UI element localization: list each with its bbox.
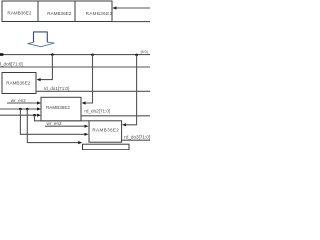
RAM block U4 (mid left) — [2, 73, 36, 94]
bus line L2 — [0, 66, 150, 68]
node on pin3 wire — [33, 114, 36, 117]
svg-text:RAMB36E2: RAMB36E2 — [7, 11, 31, 16]
net rd_do3 wire — [122, 139, 150, 141]
svg-text:wr_en2: wr_en2 — [11, 98, 27, 103]
branch B wire into U7 pin — [27, 109, 82, 144]
RAM block U7 (bottom, clipped) — [83, 144, 130, 150]
svg-text:rd_do2[71:0]: rd_do2[71:0] — [84, 109, 110, 114]
svg-text:RAMB36E2: RAMB36E2 — [47, 11, 71, 16]
svg-text:RAMB36E2: RAMB36E2 — [46, 105, 70, 110]
node on L1 for V2 — [91, 54, 94, 57]
collapsed-hierarchy expand marker (blue) — [34, 32, 48, 42]
svg-text:RAMB36E2: RAMB36E2 — [6, 80, 30, 85]
RAM block U5 (center) — [41, 97, 81, 121]
pin stub on L1 — [0, 53, 3, 56]
RAM block U1 (top row left) — [2, 1, 38, 22]
wire wr_en3 into U6 pin1 — [45, 125, 89, 128]
svg-text:rd_do3[71:0]: rd_do3[71:0] — [124, 135, 150, 140]
wire into U5 pin2 — [0, 107, 41, 110]
RAM block U3 (top row right) — [75, 1, 112, 22]
svg-text:rd_do8[71:0]: rd_do8[71:0] — [0, 62, 23, 67]
wire from pin3 node down to U6 top rail — [35, 115, 90, 121]
wire into U3 right edge — [112, 6, 150, 9]
svg-text:rd_do1[71:0]: rd_do1[71:0] — [44, 86, 70, 91]
RAM block U2 (top row middle) — [38, 1, 75, 22]
svg-text:wr_en3: wr_en3 — [47, 121, 63, 126]
node on pin2 wire for branch A — [19, 108, 22, 111]
RAM block U6 (bottom right) — [89, 121, 122, 142]
branch A wire into U6 pin2 — [20, 109, 88, 136]
svg-text:RAMB36E2: RAMB36E2 — [86, 11, 113, 16]
wire wr_en2 into U5 pin1 — [7, 101, 41, 104]
node on L1 for V1 — [51, 53, 54, 56]
wire V1 from L1 into U4 — [37, 55, 53, 82]
wire out of U3 bottom-right — [112, 21, 150, 23]
wire into U5 pin3 — [0, 114, 41, 117]
wire V3 from L1 into U6 — [122, 55, 137, 127]
node on L1 for V3 — [135, 54, 138, 57]
bus line L1 — [0, 54, 150, 56]
svg-text:[8:0]: [8:0] — [141, 50, 148, 54]
net rd_do1 wire — [36, 90, 150, 92]
wire V2 from L1 into U5 — [82, 55, 93, 105]
svg-text:RAMB36E2: RAMB36E2 — [92, 128, 119, 133]
net rd_do2 wire — [81, 115, 150, 117]
node on pin2 wire for branch B — [26, 108, 29, 111]
